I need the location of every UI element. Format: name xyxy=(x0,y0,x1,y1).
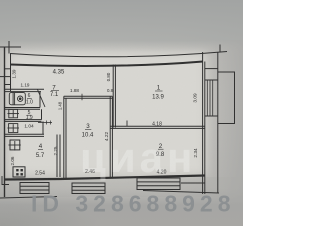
ladder ticks left wall xyxy=(5,68,11,70)
tick top-left xyxy=(8,41,10,54)
underline room 6 number xyxy=(27,97,32,99)
door tick room3 top xyxy=(81,94,83,101)
bottom-right outer line xyxy=(143,191,219,194)
room1 left wall xyxy=(112,65,114,128)
bath fixture room6 xyxy=(7,93,25,133)
outer left wall xyxy=(4,47,6,197)
neighbor wall top-left xyxy=(0,46,21,48)
washroom right edge xyxy=(41,109,43,119)
door tick rooms1-2 wall xyxy=(126,121,128,127)
closet bottom wall xyxy=(5,133,45,135)
underline room 2 number xyxy=(158,148,164,150)
kitchen window xyxy=(20,183,49,194)
kitchen sink xyxy=(10,140,20,150)
bottom-left step xyxy=(2,176,9,185)
closet right edge xyxy=(42,121,44,134)
wall rooms1-2 xyxy=(110,125,204,127)
toilet room right edge xyxy=(39,92,41,108)
underline room 1 number xyxy=(155,90,163,92)
kitchen right wall xyxy=(56,135,58,178)
light interior of flat xyxy=(8,52,206,176)
room2 window xyxy=(137,178,180,190)
tick above top line right xyxy=(219,45,221,53)
outer thin vertical right xyxy=(217,52,219,193)
balcony door jamb caps xyxy=(205,68,218,70)
corridor left wall xyxy=(10,54,12,92)
paper background xyxy=(0,0,243,226)
bath block top wall xyxy=(5,88,45,90)
right wall of flat xyxy=(202,52,204,194)
bottom-left outer line xyxy=(0,197,57,199)
bottom wall of flat (sloped) xyxy=(5,176,206,180)
underline room 5 number xyxy=(27,114,32,116)
underlines for room numbers xyxy=(27,91,164,150)
balcony outline xyxy=(218,72,235,124)
room3 top wall xyxy=(64,95,113,97)
washbasin room5 xyxy=(9,109,18,117)
gas stove xyxy=(13,167,25,177)
room3 right wall xyxy=(109,96,111,178)
toilet room bottom wall xyxy=(5,107,41,109)
washbasin closet xyxy=(9,124,18,133)
room3 left wall xyxy=(63,96,65,178)
scan grain overlay defined at end xyxy=(0,41,235,198)
kitchen door ticks xyxy=(46,121,48,125)
washroom bottom wall xyxy=(5,119,42,121)
bathroom door leaf xyxy=(38,90,46,108)
balcony window hatch xyxy=(206,80,208,116)
underline room 3 number xyxy=(85,129,91,131)
room3 window xyxy=(72,183,105,194)
thin top outer line (bowed) xyxy=(10,52,227,57)
short line right of room2 window xyxy=(181,182,205,184)
stove burners xyxy=(16,169,23,176)
underline room 4 number xyxy=(38,148,43,150)
main top wall (bowed) xyxy=(11,62,203,66)
underline room 7 number xyxy=(51,90,59,92)
